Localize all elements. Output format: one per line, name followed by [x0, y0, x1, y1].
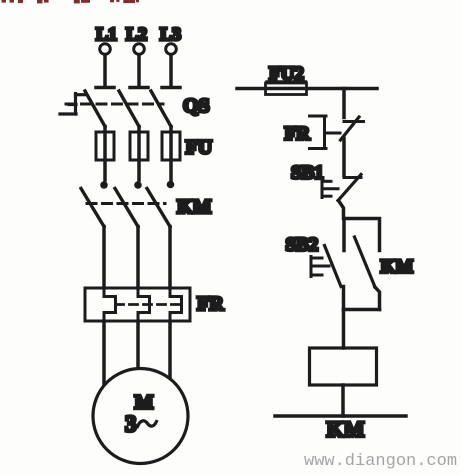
wire junction to coil [342, 310, 346, 349]
FU2 underline [267, 80, 307, 82]
contactor KM pole 2 fixed contact dot [134, 181, 142, 189]
fuse FU pole 3 [162, 132, 180, 160]
switch QS pole 3 blade [151, 91, 171, 127]
SB1 NC contact seat bar [344, 176, 361, 179]
wire KM contact to bottom junction [375, 287, 380, 310]
FR heater element pole 2 [138, 288, 150, 321]
wire QS to FU pole 1 [103, 127, 107, 181]
SB1 NC contact blade [338, 175, 361, 201]
switch QS pole 1 blade [85, 91, 105, 127]
contactor KM pole 3 fixed contact dot [167, 181, 175, 189]
control circuit bottom bus [275, 414, 406, 418]
wire bus to FR contact [342, 89, 346, 118]
svg-text:SB2: SB2 [286, 235, 319, 256]
wire junction to SB2 [342, 219, 346, 251]
thermal relay FR box [85, 288, 190, 321]
FR internal dashed linkage [116, 303, 182, 306]
SB1 pushbutton actuator [322, 180, 338, 198]
svg-text:QS: QS [183, 95, 210, 117]
control circuit top bus [237, 87, 377, 91]
contactor coil KM [310, 348, 377, 385]
FR NC contact blade [341, 117, 360, 140]
svg-text:L1: L1 [96, 24, 117, 44]
svg-text:FU: FU [186, 137, 213, 159]
wire FR to motor pole 3 [168, 321, 172, 378]
switch QS pole 2 blade [119, 91, 139, 127]
motor M circle [93, 369, 188, 464]
wire L3 to QS [169, 56, 173, 86]
svg-text:3: 3 [125, 412, 137, 437]
svg-text:KM: KM [327, 417, 365, 442]
terminal L3 [166, 44, 177, 55]
terminal L2 [134, 44, 145, 55]
switch QS pole 3 top contact [162, 86, 180, 90]
FR NC contact seat bar [344, 120, 364, 123]
QS operating handle [60, 94, 86, 115]
contactor KM pole 1 fixed contact dot [100, 181, 108, 189]
svg-text:L3: L3 [160, 24, 181, 44]
contactor KM pole 1 blade [81, 189, 104, 227]
cropped red text fragments top edge [2, 0, 140, 3]
FR heater element pole 1 [104, 288, 116, 321]
fuse FU pole 2 [130, 132, 148, 160]
wire SB1 to junction [339, 201, 344, 219]
wire FR to motor pole 1 [102, 321, 106, 385]
SB2 pushbutton actuator [311, 257, 329, 277]
svg-text:FR: FR [197, 293, 224, 315]
wire FR contact to SB1 [342, 139, 346, 176]
QS linkage dashed line [66, 103, 163, 106]
contactor KM pole 2 blade [115, 189, 138, 227]
svg-text:L2: L2 [126, 24, 147, 44]
branch bottom wire [344, 308, 380, 312]
wire KM to FR pole 3 [168, 227, 172, 289]
terminal L1 [100, 44, 111, 55]
contactor KM pole 3 blade [147, 189, 170, 227]
branch top wire [344, 219, 380, 251]
svg-text:FR: FR [285, 124, 311, 145]
wire coil to bottom bus [341, 385, 345, 416]
wire KM to FR pole 2 [136, 227, 140, 289]
SB2 NO contact blade [325, 246, 342, 287]
wire L1 to QS [103, 56, 107, 86]
switch QS pole 1 top contact [96, 86, 114, 90]
svg-text:M: M [135, 392, 154, 414]
fuse FU2 [266, 83, 307, 95]
FR heater element pole 3 [170, 288, 182, 321]
svg-text:KM: KM [177, 196, 212, 218]
wire QS to FU pole 3 [169, 127, 173, 181]
wire FR to motor pole 2 [136, 321, 140, 369]
wire QS to FU pole 2 [137, 127, 141, 181]
fuse FU pole 1 [96, 132, 114, 160]
wire KM to FR pole 1 [102, 227, 106, 289]
KM linkage dashed line [87, 202, 165, 205]
wire SB2 to bottom junction [342, 287, 346, 310]
switch QS pole 2 top contact [130, 86, 148, 90]
wire L2 to QS [137, 56, 141, 86]
svg-text:KM: KM [381, 257, 414, 278]
KM auxiliary NO contact blade [355, 237, 376, 287]
svg-text:www.diangon.com: www.diangon.com [304, 452, 457, 471]
svg-text:SB1: SB1 [291, 163, 324, 184]
FR contact actuator bracket [310, 116, 341, 149]
